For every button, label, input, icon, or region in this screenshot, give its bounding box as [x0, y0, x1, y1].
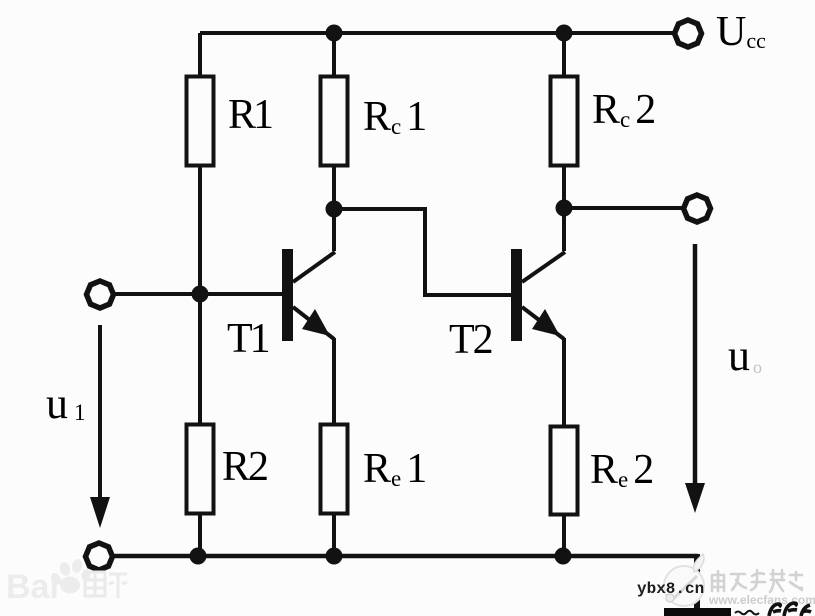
transistor T1 — [282, 249, 335, 341]
junction dot Re1 bottom — [326, 548, 343, 565]
svg-text:Re1: Re1 — [363, 446, 427, 492]
watermark elecfans hanzi — [712, 570, 802, 592]
resistor Rc1 — [321, 77, 348, 166]
svg-text:ybx8.cn: ybx8.cn — [637, 580, 704, 598]
wire Re1 bottom lead — [332, 513, 336, 556]
wire top supply rail — [200, 31, 673, 35]
junction dot top Rc2 — [556, 25, 573, 42]
resistor R1 — [187, 77, 214, 166]
wire R1 bottom to input node — [198, 165, 202, 296]
junction dot top Rc1 — [326, 25, 343, 42]
svg-text:uo: uo — [728, 331, 762, 380]
resistor Re2 — [551, 427, 578, 515]
wire Re2 bottom lead — [562, 514, 566, 556]
black bar bottom — [664, 608, 731, 616]
wire R2 bottom lead — [198, 513, 202, 556]
wire input to T1 base — [113, 292, 283, 296]
wire node B to output terminal — [564, 206, 683, 210]
svg-text:u1: u1 — [46, 379, 86, 428]
svg-text:Re2: Re2 — [590, 447, 654, 493]
wire bottom rail — [112, 554, 698, 559]
svg-text:Rc2: Rc2 — [592, 87, 656, 133]
wire Rc1 bottom to node A — [332, 165, 336, 211]
handwriting marks bottom right — [735, 603, 811, 616]
watermark baidu baike paw — [49, 558, 93, 593]
wire T1 collector — [332, 211, 336, 251]
terminal output — [684, 195, 711, 222]
wire Rc2 top lead — [562, 33, 566, 78]
wire Rc1 top lead — [332, 33, 336, 78]
svg-text:Bai: Bai — [6, 568, 59, 606]
watermark baike hanzi blocks — [85, 572, 127, 598]
svg-text:T1: T1 — [227, 316, 269, 362]
wire interstage coupling — [334, 209, 511, 295]
wire input node to R2 — [198, 294, 202, 425]
svg-text:R2: R2 — [222, 444, 267, 490]
wire T2 collector — [562, 210, 566, 251]
svg-text:T2: T2 — [449, 317, 492, 363]
svg-text:www.elecfans.com: www.elecfans.com — [708, 593, 815, 607]
svg-text:R1: R1 — [228, 92, 272, 138]
junction dot R2 bottom — [190, 548, 207, 565]
terminal ground bottom left — [86, 543, 113, 570]
wire T1 emitter to Re1 — [332, 338, 336, 425]
junction node input/R1/R2 — [192, 286, 209, 303]
junction dot Re2 bottom — [555, 548, 572, 565]
resistor R2 — [187, 425, 214, 514]
terminal input — [87, 281, 114, 308]
watermark ybx8 circle logo — [664, 554, 704, 606]
svg-text:Rc1: Rc1 — [363, 94, 427, 140]
svg-text:Ucc: Ucc — [716, 9, 766, 55]
arrow u1 input voltage — [90, 325, 110, 528]
wire Rc2 bottom to node B — [562, 165, 566, 210]
wire T2 emitter to Re2 — [562, 338, 566, 427]
node A collector T1 — [326, 201, 343, 218]
transistor T2 — [511, 249, 565, 341]
node B collector T2 — [556, 200, 573, 217]
resistor Rc2 — [551, 77, 578, 166]
arrow u output voltage — [685, 244, 705, 513]
resistor Re1 — [321, 425, 348, 514]
wire R1 top lead — [198, 33, 202, 78]
terminal Ucc — [675, 20, 702, 47]
wire bottom rail corner down — [694, 554, 700, 616]
